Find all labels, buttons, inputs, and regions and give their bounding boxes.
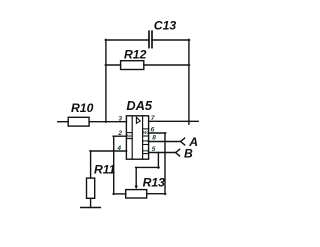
wire R11 top vertical	[90, 151, 92, 178]
wire wiper loop horizontal	[136, 166, 160, 168]
arrow A	[181, 138, 186, 146]
potentiometer R13	[126, 190, 147, 198]
resistor R11	[87, 178, 95, 198]
svg-text:B: B	[184, 147, 193, 161]
svg-text:C13: C13	[154, 18, 177, 32]
wire R10 to DA5 pin 3	[89, 121, 126, 123]
ground	[81, 207, 101, 209]
wire input stub to R10	[58, 121, 68, 123]
capacitor C13	[149, 31, 152, 47]
wire pin5 branch vertical to wiper loop	[157, 153, 159, 169]
wire R13 left terminal	[113, 193, 126, 195]
wire pin 8 to arrow A	[149, 141, 181, 143]
wire pin 4 horizontal to R11 branch	[90, 150, 127, 152]
wire top horizontal left of C13	[105, 39, 148, 41]
wire R12 row right segment	[144, 64, 190, 66]
svg-text:3: 3	[118, 116, 122, 123]
wire top horizontal right of C13	[153, 39, 190, 41]
wire left vertical of feedback loop	[105, 39, 107, 122]
wire pin 6 horizontal	[149, 132, 166, 134]
svg-text:R11: R11	[94, 162, 116, 176]
left column NC cell of DA5	[126, 133, 134, 139]
resistor R10	[68, 117, 89, 126]
svg-text:8: 8	[152, 135, 156, 142]
right column cells of DA5	[143, 129, 151, 154]
wire pin2/pin4 vertical down to R13 left	[113, 136, 115, 194]
op-amp DA5 body	[126, 116, 148, 159]
wire pin 5 to arrow B	[149, 152, 176, 154]
wire R13 right terminal	[147, 193, 166, 195]
svg-text:DA5: DA5	[126, 98, 152, 113]
svg-text:R10: R10	[71, 101, 94, 115]
wire pin 7 to right vertical	[149, 120, 199, 122]
open-collector mark cell pin 8	[143, 140, 148, 142]
svg-text:R13: R13	[143, 175, 166, 189]
wire pin 2 horizontal	[113, 135, 126, 137]
svg-text:NC: NC	[127, 134, 134, 139]
emitter mark cell pin 5	[143, 150, 148, 152]
wire R12 row left segment	[105, 64, 120, 66]
wire R11 bottom to ground	[90, 198, 92, 207]
wire wiper vertical with arrow into R13	[135, 167, 138, 189]
arrow B	[176, 149, 181, 157]
svg-text:R12: R12	[124, 48, 147, 62]
amplifier triangle inside DA5	[136, 117, 140, 123]
wire right vertical	[188, 39, 190, 124]
wire pin 6 vertical down to R13 right	[164, 133, 166, 194]
resistor R12	[121, 61, 144, 70]
